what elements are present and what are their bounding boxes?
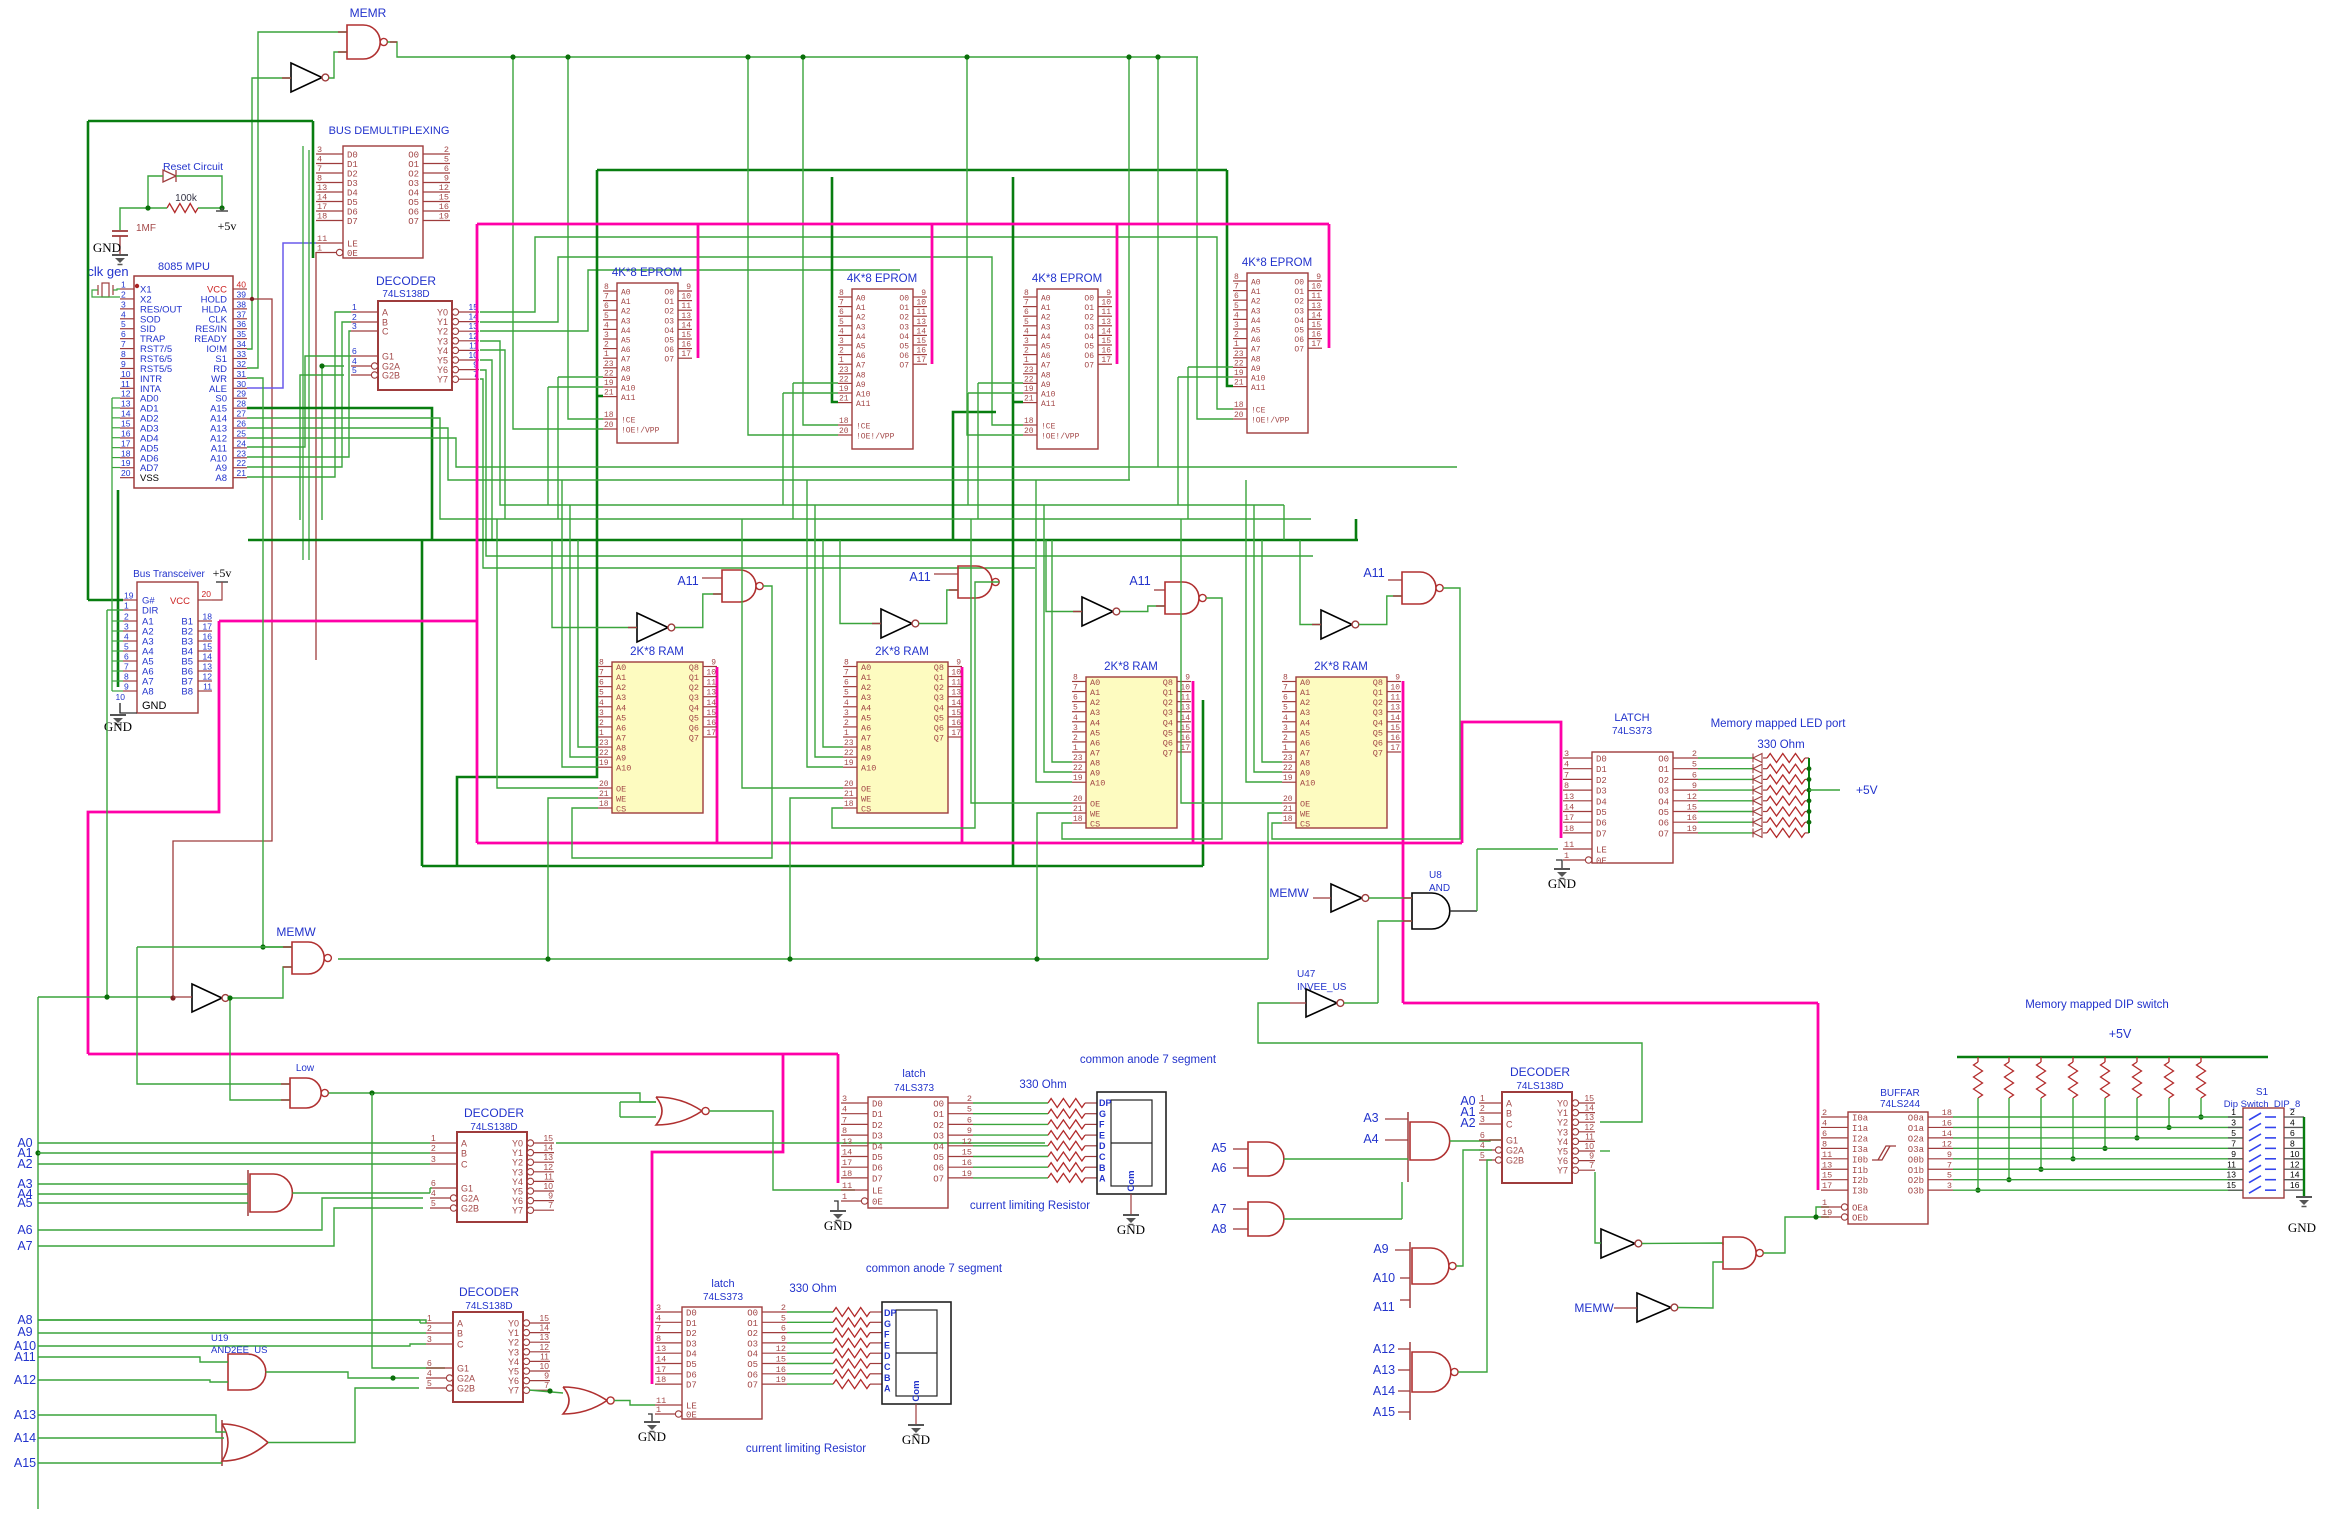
svg-text:A6: A6 (1300, 738, 1310, 748)
power +5v symbol (216, 210, 228, 212)
svg-text:4: 4 (1283, 714, 1288, 723)
svg-text:5: 5 (1692, 760, 1697, 770)
resistor 330 seg1 7 (1048, 1173, 1085, 1182)
svg-text:17: 17 (1180, 744, 1190, 753)
wire dark green top rect horizontal (597, 169, 1227, 172)
svg-text:15: 15 (1390, 724, 1400, 733)
wire A5A6 AND out (1284, 1158, 1408, 1160)
wire pink bus EPROM1 output column (697, 224, 700, 358)
svg-text:18: 18 (1283, 815, 1293, 824)
wire transceiver AD bus vertical (117, 490, 120, 687)
wire A10 to decoder C (247, 331, 351, 457)
svg-text:D3: D3 (347, 179, 358, 189)
svg-text:A14: A14 (14, 1431, 36, 1445)
svg-text:Y4: Y4 (1557, 1137, 1568, 1147)
IC 4K*8 EPROM 2 (838, 289, 927, 449)
wire pink bus RAM1 output column (716, 667, 719, 843)
svg-text:Y2: Y2 (512, 1158, 523, 1168)
wire pink bus latch1 column x838 (837, 1054, 840, 1183)
wire 7seg1 row 3 (973, 1134, 1048, 1136)
svg-text:7: 7 (317, 164, 322, 174)
wire band y480 (A13) (247, 428, 1130, 480)
wire LED row 5 (1698, 811, 1753, 813)
wire decoder Y4 down to band (480, 350, 505, 519)
svg-text:20: 20 (1234, 411, 1244, 420)
IC 2K*8 RAM 4 (1282, 674, 1401, 830)
svg-text:U19: U19 (211, 1333, 228, 1344)
svg-text:22: 22 (604, 369, 614, 378)
IC 2K*8 RAM 3 (1072, 674, 1191, 830)
wire 7seg1 row 6 (973, 1166, 1048, 1168)
svg-text:D3: D3 (1596, 787, 1607, 797)
wire resistor to +5V rail (1805, 778, 1809, 780)
svg-text:WE: WE (1090, 810, 1100, 820)
svg-text:13: 13 (544, 1152, 554, 1162)
svg-text:CS: CS (1090, 820, 1100, 830)
wire NOR in1 (620, 1101, 656, 1103)
svg-text:common anode 7 segment: common anode 7 segment (866, 1263, 1003, 1275)
wire inverter out to nand in2 (1120, 606, 1165, 612)
svg-text:21: 21 (844, 790, 854, 799)
svg-text:D: D (1099, 1141, 1106, 1151)
svg-text:O1: O1 (747, 1319, 758, 1329)
svg-text:O7: O7 (747, 1381, 758, 1391)
svg-text:10: 10 (116, 692, 126, 702)
LED D5 (1753, 807, 1762, 816)
svg-text:A: A (461, 1139, 467, 1149)
wire A10 stub (1400, 1277, 1410, 1279)
wire AD1 stub (112, 407, 120, 409)
svg-text:O5: O5 (408, 198, 419, 208)
svg-text:12: 12 (203, 672, 213, 682)
DIP switch pole 4 (2228, 1147, 2243, 1149)
resistor 330 seg2 7 (833, 1380, 870, 1389)
wire A15 line (38, 1462, 222, 1464)
svg-text:F: F (1099, 1120, 1105, 1130)
svg-text:Q7: Q7 (1163, 748, 1173, 758)
wire RAM4 A8 feeder (1262, 540, 1282, 762)
and gate U19 (228, 1354, 266, 1390)
svg-text:15: 15 (203, 642, 213, 652)
svg-text:A8: A8 (1211, 1222, 1226, 1236)
wire 7seg1 row 2 (973, 1123, 1048, 1125)
svg-text:7: 7 (1589, 1160, 1594, 1170)
svg-text:13: 13 (2227, 1170, 2237, 1180)
svg-text:33: 33 (237, 349, 247, 359)
DIP switch pole 2 (2228, 1126, 2243, 1128)
wire RAM1 A8 feeder (578, 540, 598, 747)
wire 7seg1 row 1 (973, 1113, 1048, 1115)
svg-text:13: 13 (1585, 1112, 1595, 1122)
svg-text:BUS DEMULTIPLEXING: BUS DEMULTIPLEXING (329, 125, 450, 137)
wire pink bus RAM4 output column (1402, 681, 1405, 1003)
svg-text:D4: D4 (347, 189, 358, 199)
svg-text:LE: LE (1596, 846, 1607, 856)
svg-text:A6: A6 (1041, 352, 1051, 361)
wire inverter out to nand in2 (675, 594, 722, 628)
svg-text:15: 15 (544, 1133, 554, 1143)
wire LED row 0 (1698, 757, 1753, 759)
wire led to resistor (1763, 757, 1767, 759)
svg-text:0E: 0E (347, 249, 358, 259)
svg-text:12: 12 (1687, 792, 1697, 802)
svg-text:15: 15 (776, 1355, 786, 1365)
svg-text:G1: G1 (457, 1364, 469, 1374)
svg-text:14: 14 (540, 1323, 550, 1333)
ground latch1 (830, 1210, 846, 1212)
svg-text:MEMW: MEMW (1574, 1301, 1614, 1315)
svg-text:74LS138D: 74LS138D (382, 289, 429, 300)
svg-text:O3: O3 (899, 323, 909, 332)
svg-text:Y5: Y5 (512, 1187, 523, 1197)
svg-text:D2: D2 (347, 170, 358, 180)
svg-text:12: 12 (540, 1342, 550, 1352)
wire pink bus latch riser x1462 (1462, 722, 1561, 843)
svg-text:5: 5 (444, 155, 449, 165)
svg-text:Y5: Y5 (437, 356, 448, 366)
wire resistor to +5V rail (1805, 800, 1809, 802)
wire led to resistor (1763, 832, 1767, 834)
svg-text:A7: A7 (1251, 346, 1261, 355)
wire pink bus EPROM4 output column (1328, 224, 1331, 348)
svg-text:1: 1 (121, 280, 126, 290)
wire EPROM3 A10 feeder (968, 392, 1023, 394)
ground LED latch (1554, 868, 1570, 870)
wire pink bus lower right y1003 (1403, 1002, 1818, 1005)
svg-text:23: 23 (839, 366, 849, 375)
svg-text:2K*8 RAM: 2K*8 RAM (1314, 661, 1368, 673)
svg-text:16: 16 (951, 719, 961, 728)
svg-text:5: 5 (352, 365, 357, 375)
svg-text:A: A (1099, 1174, 1106, 1184)
nand gate MEMW left (292, 942, 324, 974)
wire dark green RAM1 A10 hook (597, 766, 598, 769)
svg-text:A8: A8 (621, 365, 631, 374)
svg-text:8: 8 (317, 174, 322, 184)
wire OR2 output to latch2 LE (614, 1401, 655, 1406)
svg-text:OEb: OEb (1852, 1214, 1868, 1224)
svg-text:13: 13 (916, 318, 926, 327)
wire RAM1 WE to MEMW trunk (548, 798, 598, 959)
svg-text:11: 11 (1101, 308, 1111, 317)
svg-text:U47: U47 (1297, 969, 1316, 980)
svg-text:14: 14 (916, 327, 926, 336)
svg-text:Y7: Y7 (508, 1386, 519, 1396)
svg-text:G1: G1 (461, 1184, 473, 1194)
wire led to resistor (1763, 821, 1767, 823)
svg-text:5: 5 (1073, 704, 1078, 713)
crystal X1 (102, 283, 109, 297)
svg-text:A11: A11 (1251, 384, 1266, 393)
svg-text:19: 19 (1822, 1208, 1832, 1218)
wire A14 line (38, 1437, 224, 1439)
svg-text:DECODER: DECODER (459, 1285, 519, 1299)
wire Low in2 from inverter output (230, 998, 290, 1100)
svg-text:74LS138D: 74LS138D (1516, 1081, 1563, 1092)
svg-text:17: 17 (681, 350, 691, 359)
svg-text:21: 21 (1234, 379, 1244, 388)
wire pink bus EPROM2 output column (931, 224, 934, 364)
wire decoder Y1 long line (480, 257, 1023, 425)
svg-text:O2: O2 (664, 308, 674, 317)
svg-text:G2A: G2A (1506, 1146, 1524, 1156)
svg-text:10: 10 (1390, 684, 1400, 693)
svg-text:Y3: Y3 (1557, 1127, 1568, 1137)
svg-text:15: 15 (1585, 1093, 1595, 1103)
svg-text:A5: A5 (1300, 728, 1310, 738)
resistor 330 seg1 2 (1048, 1120, 1085, 1129)
svg-text:O5: O5 (1084, 343, 1094, 352)
wire Y7 to OR2 (529, 1390, 563, 1393)
wire crystal to X1 X2 (92, 290, 120, 297)
svg-text:A8: A8 (1300, 759, 1310, 769)
svg-text:A11: A11 (909, 570, 930, 584)
svg-text:5: 5 (431, 1198, 436, 1208)
svg-text:O0: O0 (747, 1309, 758, 1319)
svg-text:8: 8 (1234, 273, 1239, 282)
svg-text:A2: A2 (1090, 698, 1100, 708)
svg-text:Q7: Q7 (1373, 748, 1383, 758)
wire RAM4 A9 feeder (1254, 505, 1282, 772)
wire led to resistor (1763, 789, 1767, 791)
svg-text:+5v: +5v (218, 219, 237, 233)
wire AD7 stub (112, 467, 120, 469)
svg-text:A10: A10 (621, 385, 636, 394)
IC U9 latch 74LS373 LED port (1563, 749, 1698, 867)
wire A1 line (38, 1152, 430, 1154)
svg-text:4: 4 (2290, 1117, 2295, 1127)
svg-text:D5: D5 (872, 1153, 883, 1163)
svg-text:1: 1 (1822, 1198, 1827, 1208)
ground latch2 (644, 1421, 660, 1423)
DIP switch pole 7 (2228, 1179, 2243, 1181)
svg-text:A10: A10 (1251, 375, 1266, 384)
svg-text:GND: GND (2288, 1220, 2316, 1235)
svg-text:INVEE_US: INVEE_US (1297, 982, 1347, 993)
resistor 100k (167, 204, 198, 213)
wire A7 stub (1233, 1208, 1248, 1210)
resistor 330 seg2 5 (833, 1359, 870, 1368)
inverter A11 group 1 (637, 613, 668, 642)
wire A11 label to nand (934, 573, 958, 575)
svg-text:A7: A7 (621, 356, 631, 365)
svg-text:4K*8 EPROM: 4K*8 EPROM (1242, 257, 1312, 269)
svg-text:Y0: Y0 (1557, 1099, 1568, 1109)
svg-text:21: 21 (604, 389, 614, 398)
IC U5 decoder 74LS138D (351, 301, 479, 390)
svg-text:3: 3 (656, 1303, 661, 1313)
svg-text:13: 13 (1390, 704, 1400, 713)
svg-text:15: 15 (681, 331, 691, 340)
svg-text:14: 14 (544, 1143, 554, 1153)
wire led to resistor (1763, 800, 1767, 802)
svg-text:O4: O4 (747, 1350, 758, 1360)
wire A8 stub (112, 690, 123, 692)
svg-text:GND: GND (1117, 1222, 1145, 1237)
svg-text:A2: A2 (861, 683, 871, 693)
svg-text:11: 11 (1180, 694, 1190, 703)
wire pink bus buffer column x1818 (1817, 1003, 1820, 1190)
svg-text:A5: A5 (1041, 343, 1051, 352)
svg-text:3: 3 (839, 337, 844, 346)
svg-text:Q1: Q1 (1373, 688, 1383, 698)
svg-text:DECODER: DECODER (376, 274, 436, 288)
svg-text:G2A: G2A (461, 1194, 479, 1204)
svg-text:3: 3 (352, 321, 357, 331)
svg-text:18: 18 (599, 800, 609, 809)
svg-text:4: 4 (1024, 327, 1029, 336)
svg-text:3: 3 (1564, 749, 1569, 759)
wire 7seg2 row 0 (787, 1311, 833, 1313)
IC 2K*8 RAM 1 (598, 659, 717, 815)
ground reset (112, 254, 128, 256)
wire resistor to +5V rail (1805, 789, 1809, 791)
nor gate latch1 NOR (656, 1097, 702, 1125)
svg-text:Memory mapped LED port: Memory mapped LED port (1711, 718, 1847, 730)
svg-text:16: 16 (776, 1365, 786, 1375)
svg-text:Y1: Y1 (512, 1148, 523, 1158)
svg-text:4: 4 (604, 321, 609, 330)
svg-text:A1: A1 (616, 673, 626, 683)
svg-text:14: 14 (1311, 311, 1321, 320)
wire band y505 riser end (1283, 505, 1285, 540)
svg-text:8: 8 (1073, 674, 1078, 683)
svg-text:O4: O4 (899, 333, 909, 342)
svg-text:1: 1 (1564, 851, 1569, 861)
svg-text:6: 6 (121, 329, 126, 339)
svg-text:2: 2 (1822, 1108, 1827, 1118)
wire RAM3 A10 feeder (1036, 480, 1072, 782)
svg-text:A7: A7 (616, 733, 626, 743)
svg-text:4: 4 (1480, 1140, 1485, 1150)
svg-text:O7: O7 (933, 1174, 944, 1184)
svg-text:19: 19 (1024, 385, 1034, 394)
wire decoder Y6 stub (480, 370, 1313, 556)
svg-text:A5: A5 (621, 337, 631, 346)
svg-text:1: 1 (1283, 744, 1288, 753)
svg-text:4: 4 (1564, 760, 1569, 770)
svg-text:I2b: I2b (1852, 1176, 1868, 1186)
svg-text:A1: A1 (1041, 304, 1051, 313)
svg-text:O7: O7 (408, 217, 419, 227)
svg-text:2: 2 (844, 719, 849, 728)
svg-text:22: 22 (599, 749, 609, 758)
svg-text:10: 10 (681, 293, 691, 302)
nand gate MEMR U1 (347, 25, 380, 59)
svg-text:5: 5 (124, 642, 129, 652)
svg-text:14: 14 (951, 699, 961, 708)
svg-text:WE: WE (616, 795, 626, 805)
svg-text:CS: CS (1300, 820, 1310, 830)
svg-text:8: 8 (121, 349, 126, 359)
svg-text:O5: O5 (899, 343, 909, 352)
wire A10 line (38, 1344, 426, 1346)
wire 7seg1 row 5 (973, 1156, 1048, 1158)
svg-text:B: B (1099, 1163, 1106, 1173)
svg-text:A6: A6 (17, 1223, 32, 1237)
svg-text:4: 4 (656, 1313, 661, 1323)
svg-text:30: 30 (237, 379, 247, 389)
and gate A3A4 (1407, 1112, 1409, 1182)
svg-text:A9: A9 (1300, 769, 1310, 779)
IC 4K*8 EPROM 4 (1233, 273, 1322, 433)
svg-text:4: 4 (121, 309, 126, 319)
svg-text:Low: Low (296, 1063, 315, 1074)
wire dark green eprom3 vertical long (1012, 177, 1015, 866)
svg-text:O1: O1 (1084, 304, 1094, 313)
svg-text:A7: A7 (861, 733, 871, 743)
red dot pin1 (135, 284, 139, 288)
wire inverter input group 4 (1300, 540, 1321, 625)
svg-text:9: 9 (1589, 1151, 1594, 1161)
svg-text:74LS373: 74LS373 (894, 1083, 934, 1094)
svg-text:O0: O0 (1084, 295, 1094, 304)
wire RAM2 A9 feeder (815, 505, 843, 757)
svg-text:latch: latch (711, 1278, 734, 1290)
wire G# feed from dark green (88, 599, 123, 602)
svg-text:17: 17 (1390, 744, 1400, 753)
svg-text:A10: A10 (1300, 779, 1315, 789)
svg-text:2: 2 (1480, 1103, 1485, 1113)
pin GND 10 transceiver (120, 703, 137, 713)
wire decoder G2A feed (322, 366, 344, 520)
svg-text:A9: A9 (1090, 769, 1100, 779)
svg-text:1: 1 (844, 729, 849, 738)
wire nand output to RAM CS loop (1062, 598, 1222, 839)
wire x137 down to Low gate (137, 947, 290, 1084)
wire RAM1 A10 feeder (562, 480, 598, 767)
wire +5V stub (1809, 789, 1840, 791)
svg-text:O4: O4 (1294, 317, 1304, 326)
7-segment display 2 (882, 1302, 951, 1404)
wire resistor to +5V rail (1805, 832, 1809, 834)
svg-text:6: 6 (1283, 694, 1288, 703)
svg-text:Y7: Y7 (437, 375, 448, 385)
svg-text:D6: D6 (686, 1370, 697, 1380)
svg-text:D1: D1 (686, 1319, 697, 1329)
svg-text:2: 2 (124, 612, 129, 622)
svg-text:0E: 0E (686, 1411, 697, 1421)
wire RAM4 OE feeder (1181, 519, 1282, 803)
svg-text:C: C (382, 327, 389, 337)
svg-text:Q4: Q4 (689, 703, 699, 713)
svg-text:10: 10 (540, 1361, 550, 1371)
wire led to resistor (1763, 811, 1767, 813)
inverter U2 (IO/M) (291, 63, 322, 92)
wire buffer O row 3 to DIP (1953, 1147, 2243, 1149)
wire A8 stub (1233, 1228, 1248, 1230)
svg-text:12: 12 (776, 1344, 786, 1354)
svg-text:VSS: VSS (140, 473, 159, 484)
IC U15 buffer 74LS244 (1821, 1108, 1953, 1224)
wire decoder Y3 down to band (480, 341, 1284, 505)
svg-text:16: 16 (1101, 347, 1111, 356)
wire inverter input group 1 (552, 540, 637, 628)
svg-text:1: 1 (431, 1133, 436, 1143)
svg-text:A11: A11 (677, 574, 698, 588)
svg-text:37: 37 (237, 309, 247, 319)
wire Low output (328, 1093, 656, 1102)
wire EPROM4 upper feeder a (1128, 57, 1130, 480)
svg-text:3: 3 (1947, 1181, 1952, 1191)
svg-text:6: 6 (1480, 1130, 1485, 1140)
svg-text:A9: A9 (1251, 365, 1261, 374)
svg-text:A0: A0 (1090, 678, 1100, 688)
svg-text:A7: A7 (1090, 748, 1100, 758)
svg-text:A4: A4 (1251, 317, 1261, 326)
wire inverter input group 2 (840, 540, 881, 624)
nand gate A11 group 4 (1402, 572, 1436, 604)
